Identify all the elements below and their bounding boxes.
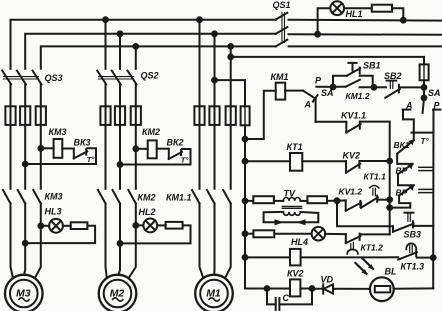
- wire KM2 coil to BK2: [157, 148, 169, 150]
- node KV1.2 row / mid rail: [387, 197, 392, 202]
- wire KM3 coil feed: [41, 147, 54, 149]
- wire HL3 to resistor: [63, 225, 71, 227]
- wire KV2 row left: [245, 288, 267, 290]
- loop current arrow left: [275, 219, 284, 225]
- node C branch left: [265, 286, 270, 291]
- wire line L3 after QS1: [289, 45, 442, 47]
- wire right rail up: [432, 258, 434, 289]
- svg-text:HL3: HL3: [45, 207, 62, 217]
- svg-text:КМ2: КМ2: [142, 127, 160, 137]
- node bus L1 / QS2 tap: [103, 17, 108, 22]
- wire control bus to right fuse: [231, 57, 424, 65]
- wire line L2 after QS1: [289, 33, 442, 36]
- svg-text:КМ3: КМ3: [45, 192, 63, 202]
- wire line L1 after QS1: [289, 19, 442, 22]
- svg-text:QS2: QS2: [141, 71, 159, 81]
- light arrow 1: [356, 263, 367, 274]
- wire BK3 return to phase B: [25, 163, 96, 165]
- node SB1 branch left: [331, 85, 336, 90]
- svg-text:КМ1.2: КМ1.2: [346, 91, 370, 101]
- transformer TV secondary: [283, 212, 300, 215]
- timed contact KT1.2: [345, 234, 347, 243]
- wire KT1 row left: [245, 160, 290, 162]
- contactor KM3 main contact pole1: [3, 190, 11, 204]
- wire capacitor to node: [279, 289, 312, 305]
- contact KV1.2: [345, 200, 347, 210]
- node BK2 return: [118, 162, 123, 167]
- wire SB2 to fuse node: [400, 86, 424, 88]
- svg-text:КМ1.1: КМ1.1: [166, 193, 192, 203]
- loop current arrow right: [297, 219, 306, 225]
- svg-text:VD: VD: [321, 275, 334, 285]
- tilde M3: [19, 298, 29, 301]
- transformer TV core: [282, 205, 301, 207]
- capacitor C: [275, 298, 277, 311]
- contactor KM3 main contact pole3: [33, 190, 41, 204]
- wire SA contact P row: [316, 86, 333, 88]
- motor M3: [5, 275, 43, 311]
- svg-text:Р: Р: [315, 76, 322, 86]
- pushbutton SB1: [347, 68, 361, 76]
- pressure contact BP1: [398, 164, 413, 174]
- node control feed tap on phase C: [228, 55, 233, 60]
- switch QS2 pole 1: [97, 71, 106, 85]
- fuse FU column2 phase B: [115, 106, 125, 125]
- wire resistor to node: [327, 200, 337, 202]
- node BK3 return: [23, 162, 28, 167]
- tilde M2: [113, 298, 123, 301]
- wire right rail (P bypass): [432, 110, 434, 258]
- coil KT1: [290, 153, 302, 171]
- wire M1 column drops: [199, 20, 201, 189]
- svg-text:SA: SA: [321, 88, 334, 98]
- svg-text:А: А: [405, 101, 413, 111]
- svg-text:Р: Р: [434, 101, 441, 111]
- wire SB1 right to row: [360, 76, 373, 88]
- coil KM1: [276, 83, 286, 100]
- wire QS3 to fuses column 1: [10, 84, 12, 189]
- svg-text:BL: BL: [385, 267, 397, 277]
- node left rail KV1 row: [243, 255, 248, 260]
- wire HL1 branch up: [318, 8, 331, 34]
- node SB2 / fuse FU2: [422, 85, 427, 90]
- svg-text:Т°: Т°: [87, 155, 96, 164]
- svg-text:KV1.1: KV1.1: [341, 111, 366, 121]
- node KM2 coil tap: [133, 146, 138, 151]
- wire QS2 to fuses column 2: [105, 84, 107, 189]
- node bus L2 / M1 column tap: [212, 31, 217, 36]
- fuse FU2 (right): [420, 64, 429, 80]
- svg-text:М1: М1: [206, 288, 221, 300]
- svg-text:QS1: QS1: [273, 0, 291, 10]
- node feed tap on phase B: [212, 78, 217, 83]
- svg-text:KV2: KV2: [343, 151, 361, 161]
- wire KV1 row left: [245, 256, 290, 258]
- svg-text:ВК1: ВК1: [394, 140, 410, 150]
- motor M1: [195, 275, 233, 311]
- selector SA2 blade: [423, 98, 424, 113]
- svg-text:КТ1.2: КТ1.2: [361, 243, 384, 253]
- coil KV1: [290, 249, 301, 266]
- svg-text:KV1.2: KV1.2: [339, 187, 363, 197]
- node KT1.3 / right rail: [431, 255, 436, 260]
- node SB1 branch right: [372, 85, 377, 90]
- resistor R (HL3): [71, 222, 88, 229]
- node HL1 tap on L2: [315, 32, 320, 37]
- coil KV2: [290, 279, 300, 296]
- svg-text:КV2: КV2: [287, 269, 304, 279]
- fuse FU1 (left control): [241, 106, 250, 125]
- node TV row / SB3 drop: [335, 198, 340, 203]
- wire QS2 column drops: [105, 20, 107, 69]
- wire SA1 contact A drop: [315, 99, 317, 122]
- fuse FU column2 phase A: [100, 106, 110, 125]
- contactor KM2 main contact pole3: [128, 190, 136, 204]
- svg-text:SB1: SB1: [363, 61, 381, 71]
- lamp HL1: [330, 1, 344, 15]
- wire resistor to HL4: [274, 233, 311, 235]
- svg-text:КТ1.1: КТ1.1: [364, 172, 387, 182]
- svg-text:SВ3: SВ3: [404, 230, 422, 240]
- svg-text:HL2: HL2: [139, 207, 156, 217]
- wire KV1 coil to KT1.3: [301, 256, 399, 258]
- wire bus L2: [25, 34, 276, 69]
- node bus L3 / M1 column tap: [228, 44, 233, 49]
- svg-text:ВР: ВР: [396, 166, 408, 176]
- wire left control rail: [244, 125, 246, 288]
- wire KV1.1 row right: [360, 122, 390, 235]
- node SA2 common: [422, 96, 427, 101]
- fuse FU column1 phase C: [36, 106, 46, 125]
- svg-text:C: C: [283, 293, 290, 303]
- lamp HL2: [143, 219, 157, 233]
- wire KM3 contacts to motor M3: [11, 204, 14, 279]
- switch QS1 pole 1: [276, 13, 288, 20]
- wire fuse FU2 to SB2 row: [423, 80, 425, 87]
- svg-text:ВК2: ВК2: [167, 138, 184, 148]
- contactor KM1.1 main contact pole3: [223, 190, 231, 204]
- wire HL2 to resistor: [157, 224, 165, 226]
- wire left control feed: [215, 80, 246, 106]
- pushbutton SB2 (NC): [387, 80, 397, 82]
- node bus L2 / QS2 tap: [118, 31, 123, 36]
- wire HL1 to resistor: [344, 7, 372, 9]
- wire KM2 contacts to motor M2: [106, 204, 107, 279]
- selector SA2 fixed contact P: [433, 109, 440, 111]
- wire TV row left: [245, 200, 253, 202]
- node HL2 return: [118, 241, 123, 246]
- resistor R (HL1): [372, 5, 392, 12]
- thermal contact BK3: [73, 149, 75, 159]
- svg-text:Т°: Т°: [421, 137, 430, 146]
- resistor R (TV left): [253, 196, 274, 203]
- thermal contact BK1: [397, 140, 414, 154]
- svg-text:HL4: HL4: [291, 237, 308, 247]
- wire TV to resistor right: [300, 200, 307, 202]
- switch QS1 linkage: [281, 13, 283, 43]
- thermal contact BK2: [168, 149, 170, 159]
- switch QS3 linkage: [3, 76, 38, 78]
- coil KM2: [148, 140, 157, 158]
- switch QS1 pole 2: [276, 27, 288, 34]
- fuse FU column1 phase B: [20, 106, 30, 125]
- svg-text:М2: М2: [110, 288, 125, 300]
- node bus L1 / M1 column tap: [197, 17, 202, 22]
- wire SB3 row drop: [337, 201, 393, 227]
- resistor R (HL2): [166, 222, 183, 229]
- wire KM1.1 contacts to motor M1: [200, 204, 204, 279]
- node left rail TV row: [243, 199, 248, 204]
- wire KM3 coil to BK3: [62, 148, 74, 150]
- coil KM3: [54, 139, 63, 158]
- switch QS2 pole 2: [112, 71, 121, 85]
- wire HL4 to KT1.2: [325, 233, 346, 235]
- svg-text:SA: SA: [428, 88, 441, 98]
- svg-text:КТ1: КТ1: [287, 142, 303, 152]
- wire SB3 to right rail: [414, 225, 434, 227]
- wire KM1 coil branch: [245, 91, 276, 139]
- switch QS1 pole 3: [276, 40, 288, 47]
- switch QS3 pole 3: [33, 71, 42, 85]
- contactor KM1.1 main contact pole1: [192, 190, 200, 204]
- node chain bottom / mid rail: [387, 205, 392, 210]
- light arrow 2: [362, 258, 373, 269]
- svg-text:QS3: QS3: [45, 73, 63, 83]
- fuse FU column1 phase A: [5, 106, 15, 125]
- wire KV2 contact to mid rail: [359, 160, 389, 162]
- node HL3 return: [23, 241, 28, 246]
- switch QS2 linkage: [98, 76, 133, 78]
- resistor R (HL4): [253, 230, 274, 237]
- wire KM1 coil to SA blade: [285, 90, 303, 92]
- node HL1 return on L1: [401, 18, 406, 23]
- node bus L3 / QS2 tap: [133, 44, 138, 49]
- svg-text:HL1: HL1: [346, 9, 363, 19]
- contact KV2: [345, 161, 347, 172]
- contactor KM1.1 main contact pole2: [207, 190, 215, 204]
- wire bus L1: [11, 20, 276, 69]
- wire KT1.2 to mid rail: [360, 233, 389, 235]
- wire KV1.2 row left: [337, 199, 346, 201]
- svg-text:ВР: ВР: [396, 188, 408, 198]
- wire BL to right rail: [394, 287, 434, 289]
- svg-text:А: А: [304, 100, 312, 110]
- svg-text:КМ3: КМ3: [49, 127, 67, 137]
- svg-text:Т°: Т°: [181, 156, 190, 165]
- wire node to diode: [312, 288, 323, 290]
- svg-text:TV: TV: [284, 189, 296, 199]
- wire HL1 return to L1: [392, 8, 403, 20]
- wire HL2 branch: [136, 224, 144, 226]
- tilde M1: [209, 298, 219, 301]
- svg-text:КМ2: КМ2: [138, 193, 156, 203]
- switch QS2 pole 3: [128, 71, 137, 85]
- wire bus L3: [41, 46, 276, 68]
- contact KM1.2: [333, 86, 346, 88]
- wire TV secondary loop: [264, 212, 319, 222]
- wire BP1 to BP2: [398, 174, 414, 185]
- wire HL4 row left: [245, 233, 253, 235]
- fuse FU column3 phase B: [209, 106, 219, 125]
- wire SA2 A-contact path: [403, 110, 414, 141]
- capacitor C branch: [267, 289, 276, 305]
- wire KV1.1 row left: [316, 121, 347, 123]
- svg-text:ВК3: ВК3: [74, 138, 91, 148]
- wire HL3 return: [25, 226, 95, 243]
- lamp HL3: [49, 219, 63, 233]
- selector SA blade: [303, 91, 316, 99]
- switch QS3 pole 1: [2, 71, 11, 85]
- svg-text:М3: М3: [16, 288, 31, 300]
- wire KT1.1 to mid rail: [378, 199, 390, 201]
- node KM3 coil tap: [38, 146, 43, 151]
- wire to SA2 common: [423, 87, 425, 98]
- thermal box BK1 top: [412, 132, 434, 134]
- contactor KM3 main contact pole2: [18, 190, 26, 204]
- switch QS3 pole 2: [17, 71, 26, 85]
- wire HL3 branch: [41, 225, 49, 227]
- selector SA2 fixed contact A: [403, 109, 411, 111]
- pressure contact BP2: [399, 185, 414, 195]
- contact KV1.1: [345, 122, 347, 133]
- wire resistor to TV: [274, 200, 283, 202]
- wire to SB2: [374, 86, 386, 88]
- wire HL2 return: [120, 225, 191, 243]
- wire diode to BL: [333, 288, 370, 290]
- pushbutton SB3: [392, 226, 394, 231]
- lamp HL4: [312, 227, 326, 241]
- fuse FU column3 phase C: [226, 106, 236, 125]
- timed contact KT1.1: [360, 203, 362, 208]
- wire KT1 coil to KV2 contact: [302, 160, 346, 162]
- node left rail KM1 branch: [243, 137, 248, 142]
- node left rail HL4 row: [243, 231, 248, 236]
- transformer TV primary: [283, 197, 300, 200]
- wire chain bottom to mid rail: [390, 196, 411, 208]
- wire BK2 return to phase B: [120, 164, 191, 166]
- wire KM2 coil feed: [136, 148, 148, 150]
- node HL3 tap: [38, 223, 43, 228]
- wire KT1.3 to right rail: [417, 257, 433, 259]
- node C branch right: [310, 286, 315, 291]
- contactor KM2 main contact pole2: [113, 190, 121, 204]
- node HL2 tap: [133, 223, 138, 228]
- svg-text:КТ1.3: КТ1.3: [401, 262, 425, 272]
- wire to KV2 coil: [267, 288, 290, 290]
- fuse FU column2 phase C: [131, 106, 141, 125]
- resistor R (TV right): [307, 196, 327, 203]
- wire KV2 coil to node: [300, 288, 312, 290]
- diode VD: [322, 284, 324, 293]
- photoresistor BL: [370, 277, 394, 301]
- timed contact KT1.3: [398, 252, 417, 259]
- fuse FU column3 phase A: [194, 106, 204, 125]
- contactor KM2 main contact pole1: [98, 190, 106, 204]
- svg-text:КМ1: КМ1: [271, 72, 289, 82]
- node KT1 row / mid rail: [387, 159, 392, 164]
- wire BK1 to BP1: [397, 154, 412, 164]
- wire SB1 bypass: [333, 76, 347, 87]
- motor M2: [99, 275, 137, 311]
- svg-text:SB2: SB2: [384, 71, 402, 81]
- node left rail KT1 row: [243, 159, 248, 164]
